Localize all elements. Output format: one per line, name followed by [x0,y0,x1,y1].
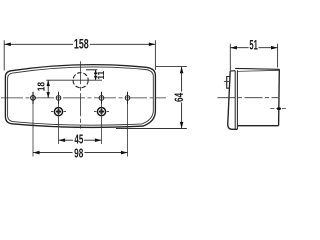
side view: body bottom edge [237,125,278,127]
circle horizontal centerline / 18-dim reference line [46,79,102,81]
dimension 51: extension lines [230,44,277,71]
dimension 158: dimension line with arrows [4,43,155,45]
dimension 11: arrow [95,70,97,80]
side view: body top edge [235,67,279,70]
svg-text:11: 11 [96,71,107,80]
vertical centerline (front view) [80,61,82,128]
dashed circle (hidden hole) [73,73,88,88]
side view: body top inner line [237,70,279,71]
side view: lens rear seam (double line) [235,70,237,129]
dimension 11: top reference line [86,69,97,71]
extension line through hole 1 down to 98-dim [32,104,34,157]
side view: body rear edge [278,69,281,125]
extension line through hole 4 down to 98-dim [127,104,129,157]
dimension 64: extension lines [116,67,187,129]
dimension 64: dimension line with arrows [181,67,183,129]
dimension 158: extension lines [4,40,155,70]
dimension 51: dimension line with arrows [230,47,277,49]
svg-text:45: 45 [74,133,83,147]
side view: main centerline [218,97,279,99]
svg-text:64: 64 [174,93,187,102]
side view: lens profile [228,71,238,129]
side view: tab centerline [224,80,230,82]
side view: clip tab on lens [227,77,230,89]
extension line through hole3/screwB down to 45-dim [101,103,103,144]
screw B (circled cross) [94,108,109,116]
side view: rear cable hole centerline with blob [270,108,287,110]
hole 4 [125,92,130,104]
svg-text:18: 18 [35,82,47,91]
hole 3 [99,92,104,104]
horizontal main centerline (front view) [1,97,166,99]
hole 1 [31,92,36,104]
svg-text:51: 51 [249,38,257,53]
lamp front view: outer outline [5,65,155,128]
extension line through hole2/screwA down to 45-dim [58,92,60,144]
dimension 98: dimension line with arrows [33,152,128,154]
dimension 45: dimension line with arrows [59,139,102,141]
hole 2 [56,92,61,104]
dimension 18: arrow [47,80,49,98]
screw A (circled cross) [51,108,66,116]
lamp front view: inner lens line [8,67,154,125]
svg-text:98: 98 [74,147,83,161]
svg-text:158: 158 [74,38,89,52]
side view: lens top edge [230,70,235,72]
